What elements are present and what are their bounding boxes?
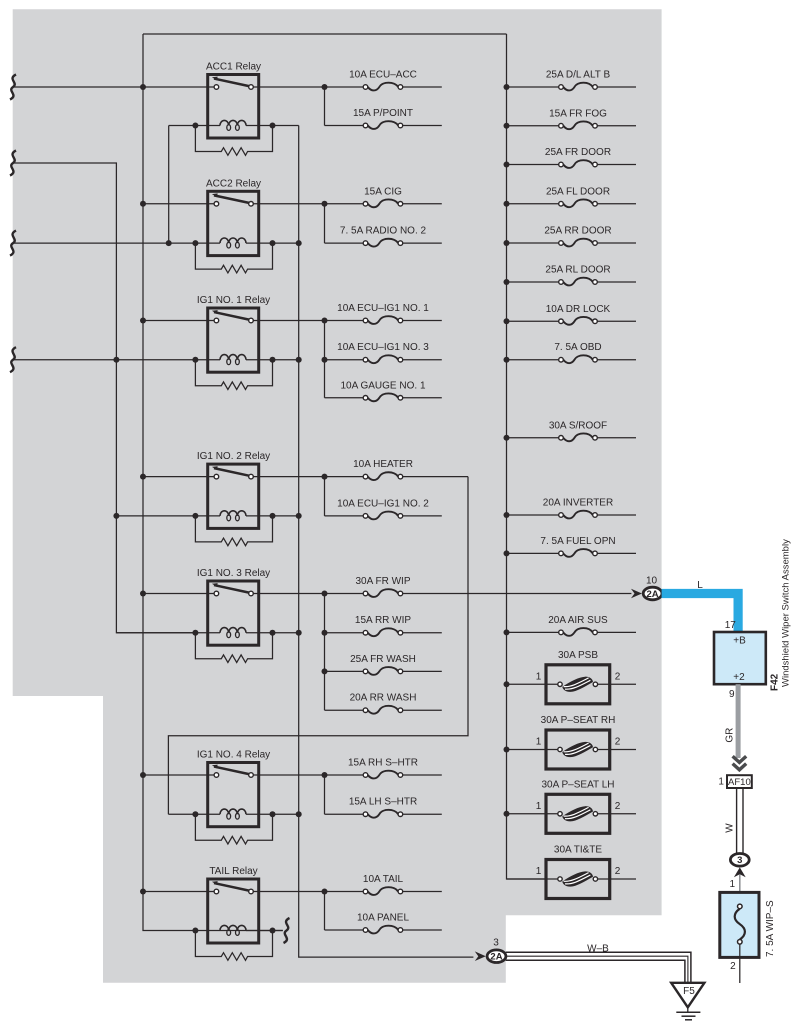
- wire: TAIL Relay coil row: [246, 930, 283, 932]
- fuse box 7.5A WIP-S: [720, 892, 759, 957]
- svg-text:30A FR WIP: 30A FR WIP: [355, 576, 410, 587]
- fuse 25A FR DOOR: [507, 164, 562, 166]
- svg-text:7. 5A OBD: 7. 5A OBD: [554, 342, 601, 353]
- relay IG1 NO. 4 Relay: switch contacts: [214, 767, 249, 775]
- junction dots IG1 NO. 1 Relay coil row: [192, 357, 198, 363]
- wire W (white, double line): [736, 788, 738, 854]
- relay IG1 NO. 3 Relay: coil: [220, 628, 246, 633]
- svg-text:IG1 NO. 3 Relay: IG1 NO. 3 Relay: [197, 568, 270, 579]
- fuse 20A RR WASH: [325, 709, 364, 711]
- junction dots on left relay feed bus: [140, 84, 146, 90]
- fuse 10A ECU–IG1 NO. 3: [325, 359, 364, 361]
- svg-text:30A P–SEAT RH: 30A P–SEAT RH: [541, 715, 616, 726]
- breaker 30A PSB element: [562, 677, 593, 692]
- wire: left relay feed bus: [143, 34, 283, 931]
- wire: coil bus (right of relays): [299, 126, 474, 958]
- svg-text:2A: 2A: [647, 589, 659, 600]
- fuse 25A FL DOOR: [507, 203, 562, 205]
- wire: IG1 NO. 3 Relay switch row: [143, 593, 214, 595]
- junction dot coil bus x116 row 515.9: [113, 513, 119, 519]
- svg-text:IG1 NO. 4 Relay: IG1 NO. 4 Relay: [197, 750, 270, 761]
- svg-text:25A RL DOOR: 25A RL DOOR: [545, 265, 610, 276]
- svg-text:W–B: W–B: [587, 943, 609, 954]
- svg-text:3: 3: [737, 855, 742, 866]
- ground symbol: [687, 1007, 689, 1012]
- gray panel background: [13, 9, 662, 983]
- relay ACC2 Relay: box: [208, 191, 259, 255]
- wire below fuse box: [739, 944, 741, 983]
- wire: IG1 NO. 1 Relay switch row: [143, 320, 214, 322]
- wire: fuse feed vertical: [324, 892, 326, 931]
- svg-text:15A P/POINT: 15A P/POINT: [353, 108, 413, 119]
- relay IG1 NO. 3 Relay: resistor: [195, 633, 272, 663]
- junction dots ACC1 Relay coil row: [192, 123, 198, 129]
- svg-text:7. 5A WIP–S: 7. 5A WIP–S: [765, 900, 776, 957]
- svg-text:1: 1: [730, 879, 736, 890]
- svg-text:30A PSB: 30A PSB: [558, 650, 598, 661]
- wire: IG1 NO. 2 Relay switch row: [143, 476, 214, 478]
- fuse 15A FR FOG: [507, 125, 562, 127]
- breaker 30A TI&TE element: [562, 871, 593, 886]
- svg-text:ACC2 Relay: ACC2 Relay: [206, 178, 261, 189]
- relay ACC2 Relay: switch contacts: [214, 195, 249, 203]
- wire W-B (white w/ black stripe): [506, 952, 691, 983]
- ground F5 triangle: [671, 983, 704, 1008]
- wire: top feed line: [143, 33, 507, 35]
- svg-text:2: 2: [730, 961, 736, 972]
- breaker 30A P–SEAT LH element: [562, 806, 593, 821]
- wire: IG1 NO. 4 Relay coil row: [168, 813, 220, 815]
- svg-text:10A HEATER: 10A HEATER: [353, 459, 413, 470]
- wire: TAIL Relay switch row: [143, 891, 214, 893]
- svg-text:10A ECU–IG1 NO. 3: 10A ECU–IG1 NO. 3: [337, 342, 429, 353]
- relay IG1 NO. 2 Relay: box: [208, 464, 259, 528]
- svg-text:1: 1: [536, 801, 542, 812]
- svg-text:15A RR WIP: 15A RR WIP: [355, 615, 411, 626]
- svg-text:15A RH S–HTR: 15A RH S–HTR: [348, 758, 418, 769]
- fuse 15A RH S–HTR: [403, 774, 442, 776]
- fuse 7. 5A FUEL OPN: [507, 552, 562, 554]
- relay IG1 NO. 1 Relay: coil: [220, 355, 246, 360]
- fuse 20A AIR SUS: [507, 631, 562, 633]
- fuse 30A S/ROOF: [507, 437, 562, 439]
- svg-text:7. 5A FUEL OPN: 7. 5A FUEL OPN: [540, 536, 615, 547]
- svg-text:10A PANEL: 10A PANEL: [357, 913, 410, 924]
- junction dot coil bus x116 row 359.7: [113, 357, 119, 363]
- relay TAIL Relay: box: [208, 879, 259, 943]
- svg-text:TAIL Relay: TAIL Relay: [209, 866, 257, 877]
- fuse 30A FR WIP: [403, 593, 632, 595]
- svg-text:1: 1: [718, 777, 724, 788]
- fuse 25A FR WASH: [325, 670, 364, 672]
- svg-text:L: L: [697, 580, 703, 591]
- relay ACC2 Relay: coil: [220, 238, 246, 243]
- svg-text:10A DR LOCK: 10A DR LOCK: [546, 304, 611, 315]
- svg-text:2: 2: [615, 866, 621, 877]
- svg-text:2: 2: [615, 737, 621, 748]
- svg-text:7. 5A RADIO NO. 2: 7. 5A RADIO NO. 2: [340, 226, 427, 237]
- fuse 25A RL DOOR: [507, 281, 562, 283]
- wire GR (gray): [736, 684, 741, 758]
- junction dot ACC2 coil left: [166, 240, 172, 246]
- relay TAIL Relay: switch contacts: [214, 883, 249, 891]
- relay IG1 NO. 4 Relay: coil: [220, 809, 246, 814]
- wire: IG1 NO.4 coil frame: [168, 477, 468, 815]
- relay IG1 NO. 4 Relay: resistor: [195, 814, 272, 844]
- junction dots IG1 NO. 4 Relay coil row: [192, 811, 198, 817]
- svg-text:Windshield Wiper Switch Assemb: Windshield Wiper Switch Assembly: [781, 539, 792, 687]
- wire: fuse feed vertical: [324, 321, 326, 398]
- fuse 15A RR WIP: [325, 632, 364, 634]
- wire: IG1 NO. 4 Relay switch row: [143, 774, 214, 776]
- relay IG1 NO. 4 Relay: box: [208, 763, 259, 827]
- wire L (blue): [662, 594, 739, 633]
- svg-text:25A FR WASH: 25A FR WASH: [350, 654, 416, 665]
- svg-text:AF10: AF10: [728, 777, 751, 788]
- squiggle: input break 1: [10, 75, 16, 100]
- svg-text:15A CIG: 15A CIG: [364, 186, 402, 197]
- svg-text:9: 9: [729, 689, 735, 700]
- svg-text:10A GAUGE NO. 1: 10A GAUGE NO. 1: [340, 380, 425, 391]
- circuit breaker 30A TI&TE: [507, 878, 561, 880]
- connector F42 box: [714, 632, 766, 684]
- relay IG1 NO. 1 Relay: switch contacts: [214, 312, 249, 320]
- svg-text:W: W: [725, 823, 736, 833]
- svg-text:20A AIR SUS: 20A AIR SUS: [548, 615, 608, 626]
- fuse 25A RR DOOR: [507, 242, 562, 244]
- svg-text:20A RR WASH: 20A RR WASH: [350, 693, 417, 704]
- circuit breaker 30A PSB: [507, 683, 561, 685]
- fuse 15A P/POINT: [325, 125, 364, 127]
- squiggle: TAIL coil wire break: [284, 918, 290, 943]
- svg-text:17: 17: [725, 620, 737, 631]
- relay IG1 NO. 2 Relay: resistor: [195, 516, 272, 546]
- svg-text:ACC1 Relay: ACC1 Relay: [206, 62, 261, 73]
- squiggle: input break 2: [10, 151, 16, 176]
- squiggle: input break 4: [10, 347, 16, 372]
- connector 2A (bottom): [487, 950, 506, 963]
- connector 2A (top): [643, 587, 662, 600]
- svg-text:10A ECU–ACC: 10A ECU–ACC: [349, 70, 417, 81]
- wire: IG1 NO. 2 Relay coil row: [116, 515, 220, 517]
- fuse 10A ECU–ACC: [403, 86, 442, 88]
- relay ACC1 Relay: switch contacts: [214, 79, 249, 87]
- relay ACC2 Relay: resistor: [195, 243, 272, 273]
- fuse 15A CIG: [403, 203, 442, 205]
- svg-text:25A RR DOOR: 25A RR DOOR: [544, 226, 611, 237]
- junction dots ACC2 Relay coil row: [192, 240, 198, 246]
- relay ACC1 Relay: resistor: [195, 126, 272, 156]
- svg-text:1: 1: [536, 737, 542, 748]
- relay TAIL Relay: coil: [220, 925, 246, 930]
- relay TAIL Relay: resistor: [195, 931, 272, 961]
- svg-text:+2: +2: [733, 672, 745, 683]
- node 10/2A connector arrow: [631, 589, 642, 599]
- svg-text:2: 2: [615, 671, 621, 682]
- fuse 10A GAUGE NO. 1: [325, 397, 364, 399]
- svg-text:2: 2: [615, 801, 621, 812]
- connector 3: [730, 854, 749, 867]
- wire: ACC2 Relay coil row: [13, 242, 220, 244]
- svg-text:+B: +B: [733, 636, 746, 647]
- fuse 15A LH S–HTR: [325, 813, 364, 815]
- svg-text:10A ECU–IG1 NO. 1: 10A ECU–IG1 NO. 1: [337, 303, 429, 314]
- junction dots IG1 NO. 3 Relay coil row: [192, 630, 198, 636]
- wire into fuse box: [739, 875, 741, 905]
- wire: right fuse bus: [507, 34, 547, 879]
- relay IG1 NO. 2 Relay: switch contacts: [214, 468, 249, 476]
- svg-text:25A D/L ALT B: 25A D/L ALT B: [546, 70, 611, 81]
- wire: fuse feed vertical: [324, 594, 326, 711]
- fuse 25A D/L ALT B: [507, 86, 562, 88]
- svg-text:2A: 2A: [490, 952, 502, 963]
- junction dots TAIL Relay coil row: [192, 928, 198, 934]
- wire: ACC1 Relay switch row: [13, 86, 214, 88]
- wire: IG1 NO. 1 Relay coil row: [13, 359, 220, 361]
- arrow up into WIP-S: [734, 867, 746, 877]
- svg-text:10: 10: [646, 575, 658, 586]
- relay ACC1 Relay: coil: [220, 120, 246, 125]
- relay IG1 NO. 1 Relay: box: [208, 308, 259, 372]
- wire: fuse feed vertical: [324, 204, 326, 243]
- relay IG1 NO. 3 Relay: switch contacts: [214, 585, 249, 593]
- wire: ACC1-ACC2 coil link: [168, 126, 170, 244]
- wire: fuse feed vertical: [324, 87, 326, 126]
- junction dots on coil bus x298.7: [296, 240, 302, 246]
- svg-text:IG1 NO. 1 Relay: IG1 NO. 1 Relay: [197, 295, 270, 306]
- svg-text:1: 1: [536, 671, 542, 682]
- svg-text:15A FR FOG: 15A FR FOG: [549, 108, 607, 119]
- junction connector AF10: [727, 775, 752, 788]
- wire: ACC2 Relay switch row: [143, 203, 214, 205]
- fuse 7. 5A RADIO NO. 2: [325, 242, 364, 244]
- squiggle: input break 3: [10, 231, 16, 256]
- wire: IG1 NO. 3 Relay coil row: [116, 632, 220, 634]
- fuse 10A ECU–IG1 NO. 1: [403, 320, 442, 322]
- wire: fuse feed vertical: [324, 775, 326, 814]
- fuse element (vertical): [735, 909, 745, 940]
- relay IG1 NO. 3 Relay: box: [208, 581, 259, 645]
- fuse 10A DR LOCK: [507, 320, 562, 322]
- relay IG1 NO. 1 Relay: resistor: [195, 360, 272, 390]
- svg-text:30A P–SEAT LH: 30A P–SEAT LH: [541, 779, 614, 790]
- wire: ACC1 Relay coil row: [169, 125, 220, 127]
- svg-text:IG1 NO. 2 Relay: IG1 NO. 2 Relay: [197, 451, 270, 462]
- fuse 10A TAIL: [403, 891, 442, 893]
- svg-text:25A FR DOOR: 25A FR DOOR: [545, 147, 611, 158]
- connector 2A arrow (bottom): [475, 951, 486, 961]
- fuse 7. 5A OBD: [507, 359, 562, 361]
- svg-text:25A FL DOOR: 25A FL DOOR: [546, 186, 610, 197]
- svg-text:3: 3: [493, 938, 499, 949]
- wire: left coil feed bus: [13, 163, 195, 633]
- junction dots IG1 NO. 2 Relay coil row: [192, 513, 198, 519]
- wire: fuse feed vertical: [324, 477, 326, 516]
- breaker 30A P–SEAT RH element: [562, 742, 593, 757]
- chevron arrows into AF10: [733, 756, 747, 762]
- svg-text:F5: F5: [683, 986, 695, 997]
- relay IG1 NO. 2 Relay: coil: [220, 511, 246, 516]
- fuse 20A INVERTER: [507, 514, 562, 516]
- svg-text:10A TAIL: 10A TAIL: [363, 874, 404, 885]
- fuse 10A PANEL: [325, 929, 364, 931]
- circuit breaker 30A P–SEAT RH: [507, 749, 561, 751]
- svg-text:20A INVERTER: 20A INVERTER: [543, 498, 613, 509]
- circuit breaker 30A P–SEAT LH: [507, 813, 561, 815]
- svg-text:30A S/ROOF: 30A S/ROOF: [549, 420, 607, 431]
- svg-text:30A TI&TE: 30A TI&TE: [554, 845, 603, 856]
- svg-text:1: 1: [536, 866, 542, 877]
- svg-text:GR: GR: [725, 728, 736, 743]
- svg-text:F42: F42: [769, 673, 780, 691]
- fuse 10A HEATER: [403, 476, 468, 478]
- svg-text:10A ECU–IG1 NO. 2: 10A ECU–IG1 NO. 2: [337, 498, 429, 509]
- svg-text:15A LH S–HTR: 15A LH S–HTR: [349, 797, 417, 808]
- relay ACC1 Relay: box: [208, 75, 259, 139]
- fuse 10A ECU–IG1 NO. 2: [325, 515, 364, 517]
